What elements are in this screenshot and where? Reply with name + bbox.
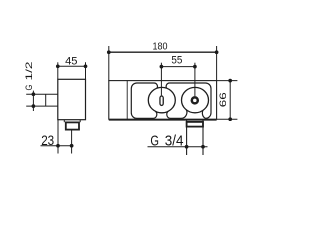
body rect bbox=[58, 79, 86, 119]
G3/4 nut band bbox=[187, 122, 203, 127]
svg-text:23: 23 bbox=[41, 132, 54, 148]
svg-text:3/4: 3/4 bbox=[165, 134, 184, 150]
svg-text:180: 180 bbox=[153, 42, 168, 53]
svg-text:45: 45 bbox=[65, 56, 77, 68]
dim 55 ext left into slot bbox=[160, 63, 162, 96]
dim 180 line bbox=[109, 51, 217, 53]
dim 45 line bbox=[58, 65, 86, 67]
G1/2 stub divider bbox=[45, 94, 47, 106]
G3/4 leader line bbox=[148, 146, 208, 148]
dim 66 ext top bbox=[217, 80, 238, 82]
dots 23 bbox=[56, 144, 60, 148]
band union outline with knob bulges bbox=[131, 83, 211, 118]
dim 45 ext right bbox=[85, 62, 87, 79]
collar neck right bbox=[79, 120, 81, 123]
dim 55 ext right into ring bbox=[194, 63, 196, 97]
left knob circle bbox=[148, 87, 175, 112]
G3/4 stub left bbox=[186, 119, 188, 155]
dim 180 ext right bbox=[216, 46, 218, 81]
dots 55 bbox=[160, 65, 164, 69]
svg-text:1/2: 1/2 bbox=[24, 62, 35, 81]
stem / 23 ext right bbox=[71, 130, 73, 154]
plate bottom thick edge bbox=[109, 119, 217, 121]
G1/2 stub bottom bbox=[26, 105, 58, 107]
left knob slot bbox=[160, 96, 163, 106]
dim 45 ext left bbox=[57, 62, 59, 79]
seam line bbox=[126, 81, 128, 120]
svg-text:66: 66 bbox=[218, 92, 229, 107]
nut bbox=[66, 122, 79, 129]
dots 45 bbox=[56, 64, 60, 68]
G3/4 stub right bbox=[202, 119, 204, 155]
dim 66 line bbox=[229, 81, 231, 120]
svg-text:G: G bbox=[150, 134, 159, 150]
dots G3/4 bbox=[185, 145, 189, 149]
plate bbox=[109, 81, 217, 120]
svg-text:G: G bbox=[24, 85, 35, 91]
right knob circle bbox=[182, 87, 209, 112]
G1/2 leader vertical bbox=[32, 91, 34, 111]
right knob ring bbox=[192, 97, 198, 103]
dim 66 ext bottom bbox=[217, 118, 238, 120]
G1/2 stub top bbox=[26, 93, 58, 95]
dim 55 line bbox=[161, 66, 195, 68]
collar neck left bbox=[63, 120, 65, 123]
svg-text:55: 55 bbox=[171, 55, 182, 67]
23 dim line bbox=[41, 145, 74, 147]
dim 180 ext left / plate left edge ext bbox=[108, 46, 110, 81]
dots 180 bbox=[107, 50, 111, 54]
dots G1/2 bbox=[32, 92, 36, 96]
dots 66 bbox=[228, 79, 232, 83]
dimension dots bbox=[32, 50, 232, 148]
23 ext left bbox=[57, 120, 59, 154]
